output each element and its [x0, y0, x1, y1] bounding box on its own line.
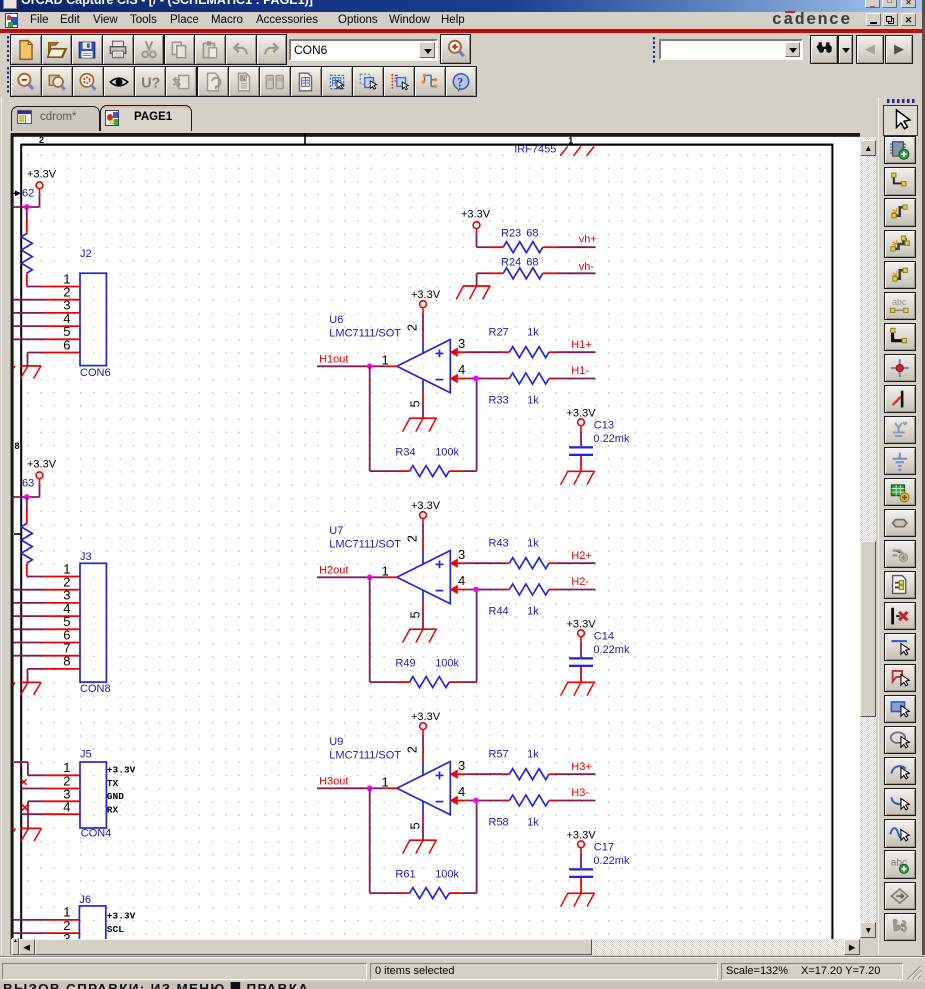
svg-text:LMC7111/SOT: LMC7111/SOT — [329, 328, 401, 340]
resistor R34 100k — [395, 446, 462, 476]
svg-text:0.22mk: 0.22mk — [593, 644, 630, 656]
svg-text:R61: R61 — [395, 868, 415, 880]
power symbol +3.3V C13 — [578, 419, 585, 431]
wire J3 pin 4 — [13, 615, 44, 617]
svg-text:U6: U6 — [329, 314, 343, 326]
svg-text:CON4: CON4 — [81, 827, 112, 839]
capacitor C14 0.22mk — [569, 630, 630, 682]
svg-text:0.22mk: 0.22mk — [593, 433, 630, 445]
wire J3 pin 6 — [13, 642, 44, 644]
wire to H1- — [555, 378, 595, 380]
resistor R49 100k — [395, 657, 462, 687]
wire pin3 (U9) — [450, 770, 458, 779]
wire to vh- — [555, 272, 595, 274]
svg-text:C13: C13 — [594, 419, 614, 431]
wire — [39, 484, 41, 497]
wire pin5 to ground — [422, 400, 424, 418]
ground vh — [456, 286, 490, 299]
wire — [580, 853, 582, 868]
svg-text:vh+: vh+ — [579, 233, 597, 245]
canvas sunken border — [11, 133, 860, 137]
svg-text:100k: 100k — [435, 446, 459, 458]
svg-text:vh-: vh- — [579, 261, 595, 273]
power symbol +3.3V C14 — [578, 630, 585, 642]
svg-text:J5: J5 — [80, 749, 92, 761]
svg-text:5: 5 — [408, 822, 423, 829]
wire pin5 to ground — [422, 822, 424, 840]
node junction output — [367, 363, 373, 369]
svg-text:SCL: SCL — [107, 924, 124, 935]
ground C17 — [561, 893, 595, 906]
svg-text:J2: J2 — [80, 248, 92, 260]
svg-text:R33: R33 — [489, 394, 509, 406]
svg-text:1k: 1k — [527, 748, 539, 760]
ground U7 pin5 — [403, 629, 437, 642]
svg-text:U?: U? — [142, 75, 161, 91]
svg-text:H3out: H3out — [319, 776, 348, 788]
resistor R23 68 — [490, 227, 555, 252]
svg-text:68: 68 — [526, 227, 538, 239]
node junction pin4 — [473, 587, 479, 593]
svg-text:2: 2 — [405, 746, 420, 753]
svg-text:LMC7111/SOT: LMC7111/SOT — [329, 750, 401, 762]
wire J2 pin 3 — [13, 312, 44, 314]
svg-text:2: 2 — [39, 135, 44, 145]
no-connect X J5 pin 4 — [22, 804, 29, 811]
svg-text:5: 5 — [408, 611, 423, 618]
svg-text:+3.3V: +3.3V — [107, 765, 136, 776]
wire output — [317, 787, 385, 789]
svg-text:+3.3V: +3.3V — [567, 407, 597, 419]
svg-text:+3.3V: +3.3V — [411, 289, 441, 301]
wire to H3- — [555, 800, 595, 802]
svg-text:J3: J3 — [80, 551, 92, 563]
wire pin4 (U9) — [450, 796, 458, 805]
capacitor C13 0.22mk — [569, 419, 630, 471]
wire to H3+ — [555, 773, 595, 775]
svg-text:1k: 1k — [527, 326, 539, 338]
wire to pin1 — [27, 286, 44, 288]
svg-text:H1+: H1+ — [571, 339, 592, 351]
connector J6 (partial) — [79, 906, 105, 952]
wire J3 pin 3 — [13, 602, 44, 604]
wire — [13, 206, 40, 208]
wire pin5 to ground — [422, 611, 424, 629]
resistor R62 — [21, 188, 34, 287]
wire feedback (R49) — [369, 577, 371, 682]
wire J2 pin 2 — [13, 299, 44, 301]
wire (frame overdraw) — [21, 144, 832, 146]
wire feedback right — [462, 681, 476, 683]
svg-text:LMC7111/SOT: LMC7111/SOT — [329, 539, 401, 551]
svg-text:1k: 1k — [527, 605, 539, 617]
svg-text:H1out: H1out — [319, 354, 348, 366]
svg-text:4: 4 — [458, 362, 465, 377]
svg-text:TX: TX — [107, 778, 119, 789]
wire J6 pin 2 — [13, 932, 44, 934]
op-amp U6 LMC7111/SOT — [329, 314, 450, 400]
wire — [422, 313, 424, 332]
svg-text:R23: R23 — [501, 227, 521, 239]
wire pin4 (U6) — [450, 374, 458, 383]
wire — [476, 234, 478, 247]
svg-text:4: 4 — [458, 573, 465, 588]
wire to H1+ — [555, 351, 595, 353]
ground J2 — [13, 366, 41, 379]
power symbol +3.3V — [36, 182, 43, 194]
wire pin4 (U7) — [450, 585, 458, 594]
ground J3 — [13, 682, 41, 695]
svg-text:62: 62 — [22, 188, 34, 200]
wire J5 pin 1 — [44, 774, 80, 776]
svg-text:2: 2 — [405, 535, 420, 542]
wire to vh+ — [555, 246, 595, 248]
power symbol +3.3V U7 — [420, 512, 427, 524]
red separator line — [0, 29, 925, 33]
svg-text:H2-: H2- — [571, 576, 589, 588]
ground U9 pin5 — [403, 840, 437, 853]
wire — [476, 273, 478, 286]
svg-text:H2out: H2out — [319, 565, 348, 577]
svg-text:0.22mk: 0.22mk — [593, 855, 630, 867]
wire pin3 (U6) — [450, 348, 458, 357]
svg-text:J6: J6 — [79, 894, 91, 906]
right search group — [652, 37, 657, 63]
wire feedback (R61) — [369, 788, 371, 893]
svg-text:3: 3 — [458, 336, 465, 351]
svg-text:C17: C17 — [594, 841, 614, 853]
ground C13 — [561, 471, 595, 484]
svg-text:H3+: H3+ — [571, 761, 592, 773]
capacitor C17 0.22mk — [569, 841, 630, 893]
svg-text:+3.3V: +3.3V — [411, 711, 441, 723]
svg-text:CON8: CON8 — [80, 683, 111, 695]
zoom-in button — [440, 34, 471, 64]
wire output — [317, 365, 385, 367]
svg-text:2: 2 — [405, 324, 420, 331]
connector J2 (CON6) — [80, 273, 106, 365]
svg-text:?: ? — [457, 75, 463, 89]
svg-text:5: 5 — [408, 400, 423, 407]
svg-text:+3.3V: +3.3V — [567, 829, 597, 841]
wire J3 pin 5 — [13, 628, 44, 630]
node junction pin4 — [473, 376, 479, 382]
op-amp U7 LMC7111/SOT — [329, 525, 450, 611]
combo box CON6 — [289, 39, 438, 61]
svg-text:H2+: H2+ — [571, 550, 592, 562]
wire J5 pin 3 to ground — [44, 800, 80, 802]
svg-text:+3.3V: +3.3V — [27, 458, 57, 470]
node junction — [24, 204, 30, 210]
wire output — [317, 576, 385, 578]
ground (top, clipped) — [560, 146, 594, 156]
svg-text:R43: R43 — [489, 537, 509, 549]
resistor R43 1k — [489, 537, 556, 568]
resistor R57 1k — [489, 748, 556, 779]
wire J3 pin 8 to ground — [44, 668, 80, 670]
svg-text:U9: U9 — [329, 736, 343, 748]
svg-text:abc: abc — [892, 296, 907, 306]
op-amp U9 LMC7111/SOT — [329, 736, 450, 822]
node junction pin4 — [473, 798, 479, 804]
resistor R58 1k — [489, 795, 556, 828]
ground C14 — [561, 682, 595, 695]
wire — [422, 735, 424, 754]
svg-text:H1-: H1- — [571, 365, 589, 377]
svg-text:1k: 1k — [527, 394, 539, 406]
svg-text:H3-: H3- — [571, 787, 589, 799]
doc icon — [5, 13, 18, 28]
power symbol +3.3V C17 — [578, 841, 585, 853]
connector J5 (CON4) — [80, 762, 106, 828]
svg-text:1: 1 — [382, 774, 389, 789]
svg-text:+3.3V: +3.3V — [411, 500, 441, 512]
no-connect X J5 pin 2 — [21, 779, 27, 785]
wire feedback (R34) — [369, 366, 371, 471]
wire feedback right — [462, 892, 476, 894]
wire J2 pin 4 — [13, 325, 44, 327]
resistor R44 1k — [489, 584, 556, 617]
mdi child buttons — [866, 13, 881, 26]
svg-text:+3.3V: +3.3V — [27, 168, 57, 180]
power symbol +3.3V — [36, 472, 43, 484]
node junction — [24, 494, 30, 500]
svg-text:R27: R27 — [489, 326, 509, 338]
wire J5 pin 4 — [44, 813, 80, 815]
svg-text:4: 4 — [458, 784, 465, 799]
svg-text:3: 3 — [458, 547, 465, 562]
svg-text:1k: 1k — [527, 816, 539, 828]
svg-text:GND: GND — [107, 791, 124, 802]
PAGE1 tab (active) — [100, 105, 192, 131]
svg-text:N: N — [241, 76, 245, 82]
connector J3 (CON8) — [80, 563, 106, 682]
wire J6 pin 1 — [13, 919, 44, 921]
svg-text:100k: 100k — [435, 868, 459, 880]
wire — [422, 524, 424, 543]
ground J5 — [14, 828, 42, 841]
svg-text:8: 8 — [14, 441, 19, 451]
wire pin3 (U7) — [450, 559, 458, 568]
page frame border — [14, 133, 832, 939]
svg-text:C14: C14 — [594, 630, 614, 642]
svg-text:68: 68 — [526, 257, 538, 269]
node junction output — [367, 785, 373, 791]
bottom strip with clipped russian text of window behind — [0, 982, 925, 989]
svg-text:R49: R49 — [395, 657, 415, 669]
svg-text:U7: U7 — [329, 525, 343, 537]
wire J2 pin 5 — [13, 338, 44, 340]
marker arrow left edge — [12, 190, 21, 196]
wire J3 pin 2 — [13, 589, 44, 591]
svg-text:CON6: CON6 — [80, 367, 111, 379]
svg-text:R34: R34 — [395, 446, 415, 458]
wire J3 pin 7 — [13, 655, 44, 657]
svg-text:1k: 1k — [527, 537, 539, 549]
svg-text:R24: R24 — [501, 257, 521, 269]
wire to H2- — [555, 589, 595, 591]
svg-text:63: 63 — [22, 478, 34, 490]
cdrom tab — [11, 106, 100, 131]
wire to pin1 — [27, 576, 44, 578]
resistor R24 68 — [490, 257, 555, 279]
svg-text:RX: RX — [107, 804, 119, 815]
svg-text:3: 3 — [458, 758, 465, 773]
svg-text:100k: 100k — [435, 657, 459, 669]
cadence logo — [772, 10, 862, 28]
resistor R27 1k — [489, 326, 556, 357]
wire — [13, 496, 40, 498]
ground U6 pin5 — [403, 418, 437, 431]
svg-text:+3.3V: +3.3V — [567, 618, 597, 630]
wire — [39, 194, 41, 207]
svg-text:1: 1 — [382, 563, 389, 578]
resistor R63 — [21, 478, 34, 577]
resistor R33 1k — [489, 373, 556, 406]
wire feedback right — [462, 470, 476, 472]
wire J2 pin 6 to ground — [44, 352, 80, 354]
wire to H2+ — [555, 562, 595, 564]
svg-text:R57: R57 — [489, 748, 509, 760]
svg-text:1: 1 — [382, 352, 389, 367]
svg-text:R58: R58 — [489, 816, 509, 828]
node junction output — [367, 574, 373, 580]
wire — [580, 642, 582, 657]
wire — [580, 431, 582, 446]
wire J5 pin 2 — [44, 788, 80, 790]
power symbol +3.3V vh — [473, 222, 480, 234]
svg-text:R44: R44 — [489, 605, 509, 617]
power symbol +3.3V U6 — [420, 301, 427, 313]
svg-text:+3.3V: +3.3V — [107, 911, 136, 922]
power symbol +3.3V U9 — [420, 723, 427, 735]
svg-text:+3.3V: +3.3V — [461, 209, 491, 221]
resistor R61 100k — [395, 868, 462, 898]
